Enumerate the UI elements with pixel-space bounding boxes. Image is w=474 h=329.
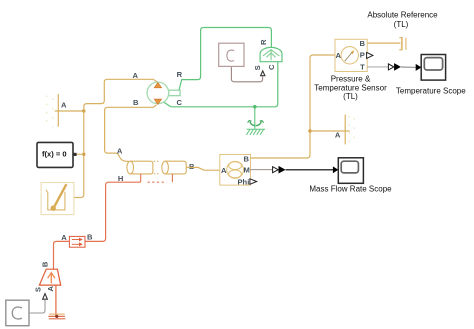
wire PT sensor B to absolute reference — [367, 42, 400, 44]
pipe H stub left — [140, 174, 142, 182]
svg-text:B: B — [133, 98, 139, 107]
svg-text:S: S — [253, 65, 262, 70]
port S input triangle of source — [261, 71, 265, 76]
svg-text:Temperature Sensor: Temperature Sensor — [314, 83, 387, 92]
pipe H stub right — [171, 174, 173, 182]
svg-text:R: R — [177, 70, 183, 79]
wire pipe H to local restriction B — [85, 182, 141, 241]
wire junction up to pump port A — [84, 79, 157, 111]
svg-text:C: C — [267, 64, 276, 70]
ground Mechanical Rotational Reference — [248, 121, 264, 126]
pump block Fixed-Displacement Pump (TL) — [147, 82, 180, 104]
svg-text:B: B — [360, 39, 366, 48]
svg-text:A: A — [133, 71, 139, 80]
svg-text:Pressure &: Pressure & — [331, 75, 371, 84]
sensor block Pressure & Temperature Sensor (TL) — [335, 39, 367, 71]
wire tank A down to reference — [55, 285, 57, 316]
block Thermal Liquid Properties — [41, 183, 74, 215]
port Phi unconnected output triangle — [250, 179, 257, 185]
converter input triangle filled — [394, 63, 401, 71]
svg-text:Phi: Phi — [237, 177, 249, 186]
svg-text:Temperature Scope: Temperature Scope — [396, 87, 466, 96]
svg-text:f(x) = 0: f(x) = 0 — [42, 149, 67, 158]
wire pipe B to mass flow sensor A — [186, 167, 220, 170]
svg-text:P: P — [360, 50, 365, 59]
sensor block Mass & Energy Flow Rate Sensor (TL) — [220, 155, 251, 186]
solver block f(x)=0 Solver Configuration — [37, 142, 77, 167]
port M output triangle hollow — [273, 167, 279, 173]
svg-text:M: M — [244, 166, 250, 175]
svg-text:Mass Flow Rate Scope: Mass Flow Rate Scope — [309, 184, 392, 193]
wire restriction A down to tank B — [54, 241, 70, 269]
svg-text:A: A — [221, 166, 227, 175]
svg-text:B: B — [87, 232, 93, 241]
svg-text:(TL): (TL) — [343, 92, 358, 101]
wire solver stub — [77, 153, 84, 155]
wire signal to temperature scope — [401, 66, 416, 68]
svg-text:(TL): (TL) — [394, 20, 409, 29]
ground absolute reference under tank — [48, 314, 65, 319]
svg-text:A: A — [117, 146, 123, 155]
restriction block Local Restriction (TL) — [69, 236, 85, 247]
node junction at (310,131) — [308, 129, 311, 132]
converter input triangle filled — [279, 166, 286, 174]
pipe block Pipe (TL) — [127, 161, 186, 174]
pipe H dashed tie — [148, 181, 167, 183]
svg-text:C: C — [176, 98, 182, 107]
reservoir block Reservoir (TL) right — [345, 115, 354, 145]
arrowhead into mass flow rate scope — [333, 166, 338, 173]
scope block Temperature Scope — [421, 55, 445, 81]
svg-text:A: A — [61, 233, 67, 242]
node junction at (83.8,111) — [82, 109, 85, 112]
svg-text:B: B — [41, 261, 50, 267]
wire flow sensor M output (PS) — [251, 169, 273, 171]
reservoir block Reservoir (TL) left — [47, 94, 59, 128]
node junction green at (254.8,106.8) — [253, 105, 257, 109]
scope block Mass Flow Rate Scope — [338, 158, 363, 184]
svg-text:R: R — [259, 39, 268, 45]
port S input triangle of tank — [43, 294, 48, 300]
wire pump B down to pipe A — [105, 105, 157, 161]
wire flow sensor B up to junction and to P&T sensor A — [251, 55, 336, 158]
svg-text:S: S — [34, 287, 43, 292]
wire junction down to properties block — [74, 111, 84, 198]
port T output triangle hollow — [388, 64, 394, 70]
svg-text:A: A — [336, 51, 342, 60]
arrowhead into temperature scope — [416, 64, 422, 71]
source block Ideal Angular Velocity Source — [260, 47, 282, 61]
tank block Controlled Reservoir (TL) — [39, 269, 60, 285]
wire pump C to source C — [164, 61, 278, 106]
wire reservoir1 A to junction — [55, 110, 84, 112]
port P unconnected output triangle — [367, 52, 373, 58]
wire pump R to angular velocity source R — [178, 28, 272, 95]
node junction at solver stub (83.8,154.3) — [82, 153, 85, 156]
wire constant C to tank S — [29, 300, 45, 313]
svg-text:B: B — [189, 162, 195, 171]
wire PT sensor T output (PS) — [367, 66, 388, 68]
svg-text:A: A — [335, 130, 341, 139]
wire signal to mass flow rate scope — [286, 169, 334, 171]
constant block C (bottom) — [6, 300, 29, 326]
svg-text:T: T — [360, 62, 365, 71]
wire junction to right reservoir A — [310, 130, 350, 132]
block Absolute Reference (TL) — [399, 37, 406, 50]
constant block C (PS Constant) — [219, 43, 244, 66]
wire junction down to rotational reference — [254, 107, 256, 129]
svg-text:A: A — [46, 286, 55, 292]
svg-text:Absolute Reference: Absolute Reference — [367, 11, 438, 20]
svg-text:A: A — [61, 101, 67, 110]
svg-text:B: B — [244, 155, 250, 164]
wire PS constant C to source S — [231, 66, 262, 81]
